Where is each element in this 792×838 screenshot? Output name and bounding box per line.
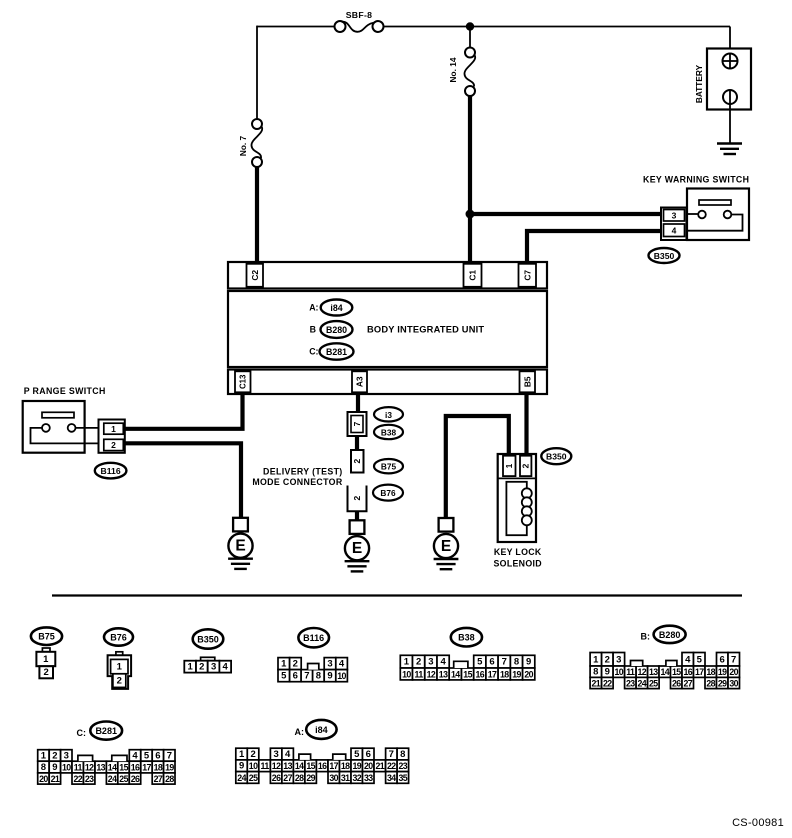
svg-text:3: 3 — [211, 662, 216, 673]
svg-text:C2: C2 — [250, 270, 260, 281]
svg-text:7: 7 — [167, 751, 172, 762]
svg-text:1: 1 — [593, 654, 599, 665]
svg-text:22: 22 — [74, 774, 83, 784]
svg-text:1: 1 — [188, 662, 194, 673]
svg-text:11: 11 — [74, 763, 83, 773]
svg-text:11: 11 — [261, 761, 270, 771]
svg-text:12: 12 — [638, 667, 647, 677]
svg-text:14: 14 — [451, 670, 460, 680]
svg-text:11: 11 — [626, 667, 635, 677]
svg-text:B116: B116 — [101, 466, 121, 476]
svg-text:4: 4 — [132, 751, 138, 762]
svg-text:B:: B: — [641, 632, 651, 642]
svg-text:2: 2 — [44, 667, 49, 678]
svg-text:15: 15 — [306, 761, 315, 771]
svg-text:13: 13 — [96, 763, 105, 773]
svg-text:3: 3 — [273, 749, 278, 760]
svg-text:8: 8 — [593, 667, 598, 678]
svg-text:31: 31 — [341, 773, 350, 783]
svg-text:6: 6 — [293, 671, 298, 682]
svg-text:B38: B38 — [381, 428, 397, 438]
svg-text:15: 15 — [463, 670, 472, 680]
svg-text:12: 12 — [272, 761, 281, 771]
svg-text:21: 21 — [592, 679, 601, 689]
svg-text:8: 8 — [514, 657, 519, 668]
svg-text:1: 1 — [504, 463, 514, 468]
svg-text:B280: B280 — [659, 630, 681, 640]
svg-text:SOLENOID: SOLENOID — [494, 559, 542, 569]
svg-text:20: 20 — [39, 774, 48, 784]
svg-text:22: 22 — [603, 679, 612, 689]
svg-text:2: 2 — [250, 749, 255, 760]
svg-text:4: 4 — [223, 662, 229, 673]
svg-text:9: 9 — [52, 762, 57, 773]
svg-text:17: 17 — [142, 763, 151, 773]
svg-text:25: 25 — [249, 773, 258, 783]
svg-text:C1: C1 — [468, 270, 478, 281]
svg-text:26: 26 — [672, 679, 681, 689]
svg-text:35: 35 — [399, 773, 408, 783]
svg-text:B281: B281 — [326, 347, 347, 357]
svg-text:34: 34 — [387, 773, 396, 783]
svg-text:16: 16 — [318, 761, 327, 771]
svg-text:2: 2 — [117, 676, 122, 687]
svg-text:B75: B75 — [38, 632, 55, 642]
svg-text:i84: i84 — [315, 725, 328, 735]
svg-text:4: 4 — [440, 657, 446, 668]
svg-text:C13: C13 — [238, 374, 247, 389]
svg-text:i3: i3 — [385, 410, 392, 420]
svg-text:C7: C7 — [522, 270, 532, 281]
svg-text:5: 5 — [144, 751, 150, 762]
svg-text:DELIVERY (TEST): DELIVERY (TEST) — [263, 467, 343, 477]
svg-text:20: 20 — [524, 670, 533, 680]
svg-text:5: 5 — [697, 654, 703, 665]
svg-text:8: 8 — [316, 671, 321, 682]
svg-text:14: 14 — [108, 763, 117, 773]
svg-text:E: E — [352, 540, 362, 557]
svg-text:No. 7: No. 7 — [238, 135, 248, 156]
svg-text:9: 9 — [526, 657, 531, 668]
svg-text:MODE CONNECTOR: MODE CONNECTOR — [252, 477, 343, 487]
svg-text:6: 6 — [720, 654, 725, 665]
svg-text:No. 14: No. 14 — [448, 57, 458, 82]
svg-text:14: 14 — [661, 667, 670, 677]
svg-text:6: 6 — [155, 751, 160, 762]
svg-text:E: E — [441, 538, 451, 555]
svg-text:12: 12 — [85, 763, 94, 773]
svg-text:B76: B76 — [380, 488, 396, 498]
svg-text:9: 9 — [327, 671, 332, 682]
svg-text:19: 19 — [165, 763, 174, 773]
svg-text:4: 4 — [339, 659, 345, 670]
svg-text:5: 5 — [354, 749, 360, 760]
svg-text:25: 25 — [649, 679, 658, 689]
svg-text:7: 7 — [389, 749, 394, 760]
svg-text:1: 1 — [41, 751, 47, 762]
svg-text:29: 29 — [306, 773, 315, 783]
svg-text:13: 13 — [283, 761, 292, 771]
svg-text:28: 28 — [706, 679, 715, 689]
svg-text:30: 30 — [729, 679, 738, 689]
svg-text:1: 1 — [111, 424, 116, 434]
svg-text:16: 16 — [684, 667, 693, 677]
svg-text:10: 10 — [402, 670, 411, 680]
svg-text:4: 4 — [285, 749, 291, 760]
svg-text:1: 1 — [404, 657, 410, 668]
svg-text:19: 19 — [512, 670, 521, 680]
svg-text:BATTERY: BATTERY — [694, 64, 704, 103]
svg-text:4: 4 — [685, 654, 691, 665]
svg-text:B38: B38 — [458, 633, 475, 643]
svg-text:1: 1 — [43, 654, 49, 665]
svg-text:4: 4 — [672, 225, 677, 235]
svg-text:3: 3 — [327, 659, 332, 670]
svg-text:26: 26 — [272, 773, 281, 783]
svg-text:10: 10 — [249, 761, 258, 771]
svg-text:B116: B116 — [303, 633, 324, 643]
svg-text:P RANGE SWITCH: P RANGE SWITCH — [24, 386, 106, 396]
svg-text:B280: B280 — [326, 325, 347, 335]
svg-text:1: 1 — [281, 659, 287, 670]
svg-text:24: 24 — [108, 774, 117, 784]
svg-text:26: 26 — [131, 774, 140, 784]
svg-text:2: 2 — [521, 463, 531, 468]
svg-text:3: 3 — [64, 751, 69, 762]
svg-text:3: 3 — [428, 657, 433, 668]
svg-text:2: 2 — [111, 440, 116, 450]
svg-text:18: 18 — [341, 761, 350, 771]
svg-text:20: 20 — [364, 761, 373, 771]
svg-text:13: 13 — [439, 670, 448, 680]
svg-text:17: 17 — [695, 667, 704, 677]
svg-text:2: 2 — [52, 751, 57, 762]
svg-text:17: 17 — [488, 670, 497, 680]
svg-text:2: 2 — [416, 657, 421, 668]
svg-text:8: 8 — [41, 762, 46, 773]
svg-text:29: 29 — [718, 679, 727, 689]
svg-text:17: 17 — [329, 761, 338, 771]
svg-text:2: 2 — [199, 662, 204, 673]
svg-text:B75: B75 — [381, 462, 397, 472]
svg-text:9: 9 — [605, 667, 610, 678]
svg-text:B76: B76 — [110, 633, 127, 643]
svg-text:21: 21 — [376, 761, 385, 771]
svg-text:BODY INTEGRATED UNIT: BODY INTEGRATED UNIT — [367, 325, 484, 335]
svg-text:CS-00981: CS-00981 — [732, 817, 784, 829]
svg-text:28: 28 — [295, 773, 304, 783]
svg-text:24: 24 — [638, 679, 647, 689]
svg-text:2: 2 — [293, 659, 298, 670]
svg-text:5: 5 — [477, 657, 483, 668]
svg-text:23: 23 — [399, 761, 408, 771]
svg-text:B5: B5 — [522, 376, 532, 387]
svg-text:A:: A: — [309, 303, 318, 313]
svg-text:6: 6 — [366, 749, 371, 760]
svg-text:1: 1 — [239, 749, 245, 760]
svg-text:32: 32 — [353, 773, 362, 783]
svg-text:20: 20 — [729, 667, 738, 677]
svg-text:15: 15 — [119, 763, 128, 773]
svg-text:12: 12 — [427, 670, 436, 680]
svg-text:18: 18 — [500, 670, 509, 680]
svg-text:8: 8 — [400, 749, 405, 760]
svg-text:i84: i84 — [330, 303, 342, 313]
svg-text:24: 24 — [237, 773, 246, 783]
svg-text:B350: B350 — [654, 251, 675, 261]
svg-text:22: 22 — [387, 761, 396, 771]
svg-text:E: E — [235, 538, 245, 555]
svg-text:23: 23 — [85, 774, 94, 784]
svg-text:15: 15 — [672, 667, 681, 677]
svg-text:30: 30 — [329, 773, 338, 783]
svg-text:18: 18 — [154, 763, 163, 773]
svg-text:18: 18 — [706, 667, 715, 677]
svg-text:5: 5 — [281, 671, 287, 682]
svg-text:SBF-8: SBF-8 — [346, 10, 373, 20]
svg-text:27: 27 — [684, 679, 693, 689]
svg-text:13: 13 — [649, 667, 658, 677]
svg-text:7: 7 — [502, 657, 507, 668]
svg-text:A3: A3 — [355, 376, 365, 387]
svg-text:B281: B281 — [95, 726, 117, 736]
svg-text:33: 33 — [364, 773, 373, 783]
svg-text:A:: A: — [295, 727, 305, 737]
svg-text:KEY LOCK: KEY LOCK — [494, 547, 542, 557]
svg-text:19: 19 — [353, 761, 362, 771]
svg-text:3: 3 — [616, 654, 621, 665]
svg-text:2: 2 — [352, 496, 362, 501]
svg-text:23: 23 — [626, 679, 635, 689]
svg-text:27: 27 — [283, 773, 292, 783]
svg-text:C:: C: — [77, 728, 87, 738]
svg-text:28: 28 — [165, 774, 174, 784]
svg-text:16: 16 — [476, 670, 485, 680]
svg-text:3: 3 — [672, 210, 677, 220]
svg-text:9: 9 — [239, 761, 244, 772]
svg-text:6: 6 — [489, 657, 494, 668]
svg-text:2: 2 — [352, 459, 362, 464]
svg-text:7: 7 — [731, 654, 736, 665]
svg-text:7: 7 — [352, 421, 362, 426]
svg-text:2: 2 — [605, 654, 610, 665]
svg-text:25: 25 — [119, 774, 128, 784]
svg-text:1: 1 — [117, 662, 123, 673]
svg-text:KEY WARNING SWITCH: KEY WARNING SWITCH — [643, 175, 749, 185]
svg-text:27: 27 — [154, 774, 163, 784]
svg-text:B: B — [310, 325, 316, 335]
svg-text:10: 10 — [615, 667, 624, 677]
svg-text:7: 7 — [304, 671, 309, 682]
svg-text:19: 19 — [718, 667, 727, 677]
svg-text:10: 10 — [337, 671, 346, 681]
svg-text:C:: C: — [309, 347, 318, 357]
svg-text:11: 11 — [415, 670, 424, 680]
svg-text:14: 14 — [295, 761, 304, 771]
svg-text:16: 16 — [131, 763, 140, 773]
svg-text:21: 21 — [51, 774, 60, 784]
svg-text:B350: B350 — [546, 452, 567, 462]
svg-text:B350: B350 — [197, 635, 219, 645]
svg-text:10: 10 — [62, 763, 71, 773]
